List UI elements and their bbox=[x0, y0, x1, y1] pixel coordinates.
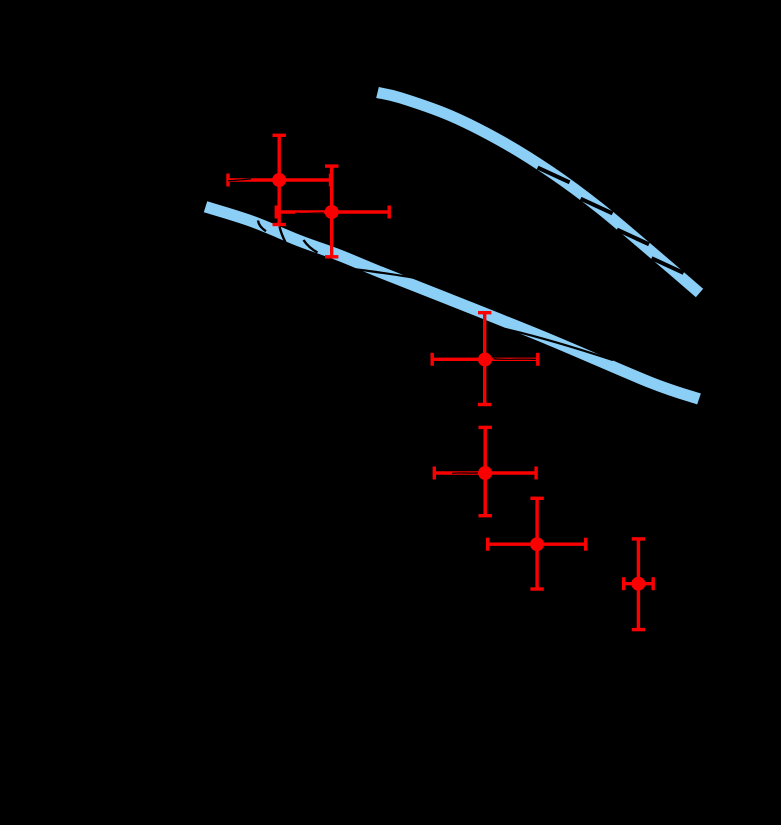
red data points with error bars bbox=[228, 135, 653, 629]
black S-curves crossing lower band near x=260,280,308 bbox=[258, 221, 318, 253]
black dash slashes crossing upper band bbox=[538, 168, 684, 273]
point 6 error bars bbox=[624, 539, 654, 630]
thin black theory line inside lower band bbox=[505, 329, 613, 360]
point 4 error bars bbox=[434, 427, 536, 515]
point 2 error bars bbox=[276, 166, 389, 257]
thin black theory wiggles over the red bars bbox=[228, 179, 536, 473]
lower theory band (light blue) bbox=[206, 207, 700, 399]
point 1 error bars bbox=[228, 135, 331, 224]
black curve nick on lower band top edge near x=370 bbox=[353, 269, 414, 278]
upper theory band (light blue) bbox=[378, 93, 700, 294]
point 3 error bars bbox=[432, 313, 538, 405]
point 5 error bars bbox=[488, 498, 586, 589]
red marker dots (drawn on top) bbox=[272, 173, 645, 591]
